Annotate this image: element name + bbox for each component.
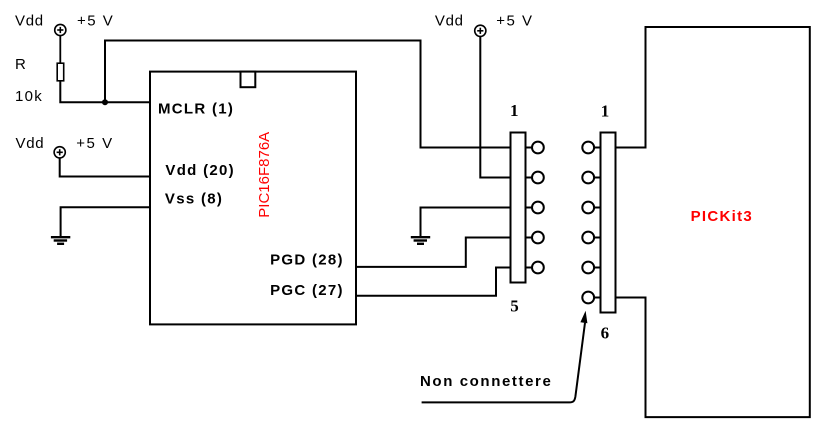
wire connector CN1 pin 3 to ground GND2 [421,208,511,237]
svg-text:1: 1 [510,101,519,120]
resistor R (10k pull-up) [57,63,64,81]
connector CN1 body [511,133,526,283]
wire V2 to Vdd(20) pin [60,158,150,177]
module U2 PICkit3 body outline with CN2 attachment wires [616,27,810,417]
CN2 pin 5 [582,262,600,274]
wire Vss(8) pin to ground GND1 [61,207,150,236]
leader line to CN2 pin 6 [422,323,585,403]
svg-text:Vss (8): Vss (8) [165,191,223,208]
power symbol V3 (+5V source, top-middle) [475,25,486,36]
wire V3 to connector CN1 pin 2 [480,36,510,177]
CN1 pin 1 [526,142,544,154]
ground GND1 [51,237,70,244]
svg-text:MCLR (1): MCLR (1) [158,100,234,117]
svg-text:1: 1 [601,102,610,121]
CN2 pin 6 [582,292,600,304]
junction node MCLR net [102,99,108,105]
wire MCLR net to connector CN1 pin 1 [105,41,511,148]
CN1 pin 5 [526,262,544,274]
svg-text:PGD (28): PGD (28) [270,252,344,269]
svg-text:Vdd: Vdd [16,135,45,152]
svg-text:Vdd: Vdd [435,13,464,30]
connector CN2 body [601,133,616,313]
CN1 pin 3 [526,202,544,214]
CN2 pin 2 [582,172,600,184]
CN1 pin 4 [526,232,544,244]
wire resistor R to MCLR pin [60,81,150,103]
svg-text:+5 V: +5 V [496,13,533,30]
power symbol V2 (+5V source, mid-left) [54,147,65,158]
svg-text:PICKit3: PICKit3 [691,208,753,225]
svg-text:Non connettere: Non connettere [420,373,552,390]
svg-text:PIC16F876A: PIC16F876A [256,132,273,218]
IC U1 PIC16F876A body [150,72,356,325]
svg-text:+5 V: +5 V [77,13,114,30]
CN1 pin 2 [526,172,544,184]
CN2 pin 4 [582,232,600,244]
CN2 pin 3 [582,202,600,214]
arrowhead at CN2 pin 6 [580,311,587,324]
svg-text:6: 6 [601,324,610,343]
svg-text:PGC (27): PGC (27) [270,282,344,299]
wire PGD(28) to connector CN1 pin 4 [356,238,511,267]
svg-text:Vdd: Vdd [15,13,44,30]
svg-text:R: R [15,56,26,73]
CN2 pin 1 [582,142,600,154]
svg-text:+5 V: +5 V [76,135,113,152]
svg-text:Vdd (20): Vdd (20) [165,162,235,179]
power symbol V1 (+5V source, top-left) [55,24,66,35]
svg-text:5: 5 [510,297,519,316]
ground GND2 [411,237,430,244]
wire V1 to resistor R [59,36,61,64]
svg-text:10k: 10k [15,88,43,105]
wire PGC(27) to connector CN1 pin 5 [356,268,511,296]
IC U1 orientation notch [241,72,256,88]
